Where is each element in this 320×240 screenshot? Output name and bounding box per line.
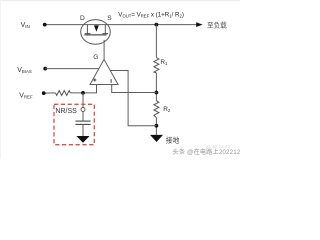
svg-text:21-65 12:43: 21-65 12:43: [206, 144, 231, 149]
svg-text:S: S: [107, 15, 112, 22]
node feedback junction dot: [155, 91, 159, 95]
resistor R3 (VREF series): [56, 91, 71, 96]
svg-text:R2: R2: [163, 106, 171, 113]
svg-text:NR/SS: NR/SS: [55, 108, 77, 115]
wire: noninverting input stub: [71, 85, 97, 93]
wire: R1 to feedback node: [155, 73, 157, 101]
transistor Q1 right leg: [104, 25, 106, 35]
wire: feedback node to inverting input: [112, 85, 157, 93]
svg-text:头条 @在电路上202212: 头条 @在电路上202212: [173, 148, 241, 156]
transistor Q1 pass FET body (ellipse): [81, 20, 111, 45]
ground symbol left: [76, 136, 89, 143]
node VIN terminal dot: [43, 23, 47, 27]
op-amp + input mark: [93, 79, 96, 82]
transistor Q1 arrow (points down): [94, 25, 99, 31]
wire: capacitor to ground: [82, 124, 84, 136]
transistor Q1 right contact foot: [102, 33, 108, 34]
op-amp U1: [90, 59, 118, 84]
wire: pin to capacitor: [82, 112, 84, 121]
wire: VOUT node down to R1: [155, 25, 157, 58]
capacitor C1 top plate: [75, 120, 90, 122]
NR/SS pin circle: [81, 108, 85, 112]
wire: gate from FET to op-amp output: [103, 40, 105, 60]
wire: junction down to NR pin: [82, 93, 84, 108]
wire: VBIAS to op-amp: [45, 68, 99, 70]
wire: top rail VIN to load arrow: [45, 24, 197, 26]
NR/SS dashed box: [54, 104, 94, 144]
ground symbol right: [150, 135, 163, 142]
wire: R2 to ground node: [155, 118, 157, 135]
resistor R2: [154, 101, 159, 118]
node VBIAS terminal dot: [43, 67, 47, 71]
svg-text:VOUT= VREF x (1+R1/ R2): VOUT= VREF x (1+R1/ R2): [118, 12, 184, 19]
svg-text:G: G: [93, 54, 98, 61]
node VOUT junction dot: [155, 23, 159, 27]
wire: VREF to resistor: [44, 92, 56, 94]
svg-text:D: D: [80, 15, 85, 22]
wire: op-amp ground pin to ground rail: [110, 71, 156, 126]
node NR/SS junction dot: [81, 91, 85, 95]
transistor Q1 left leg: [86, 25, 88, 35]
transistor Q1 channel bar: [85, 34, 107, 35]
node VREF terminal dot: [42, 91, 46, 95]
svg-text:VREF: VREF: [19, 92, 33, 99]
svg-text:R1: R1: [160, 59, 168, 66]
transistor Q1 left contact foot: [85, 33, 91, 34]
arrowhead to load: [196, 22, 202, 27]
resistor R1: [154, 58, 159, 73]
node ground junction dot: [155, 124, 159, 128]
svg-text:VBIAS: VBIAS: [17, 67, 32, 74]
svg-text:VIN: VIN: [21, 22, 30, 29]
capacitor C1 bottom plate: [75, 123, 90, 125]
op-amp - input mark: [110, 79, 112, 83]
svg-text:接地: 接地: [166, 136, 180, 145]
svg-text:至负载: 至负载: [207, 20, 227, 29]
